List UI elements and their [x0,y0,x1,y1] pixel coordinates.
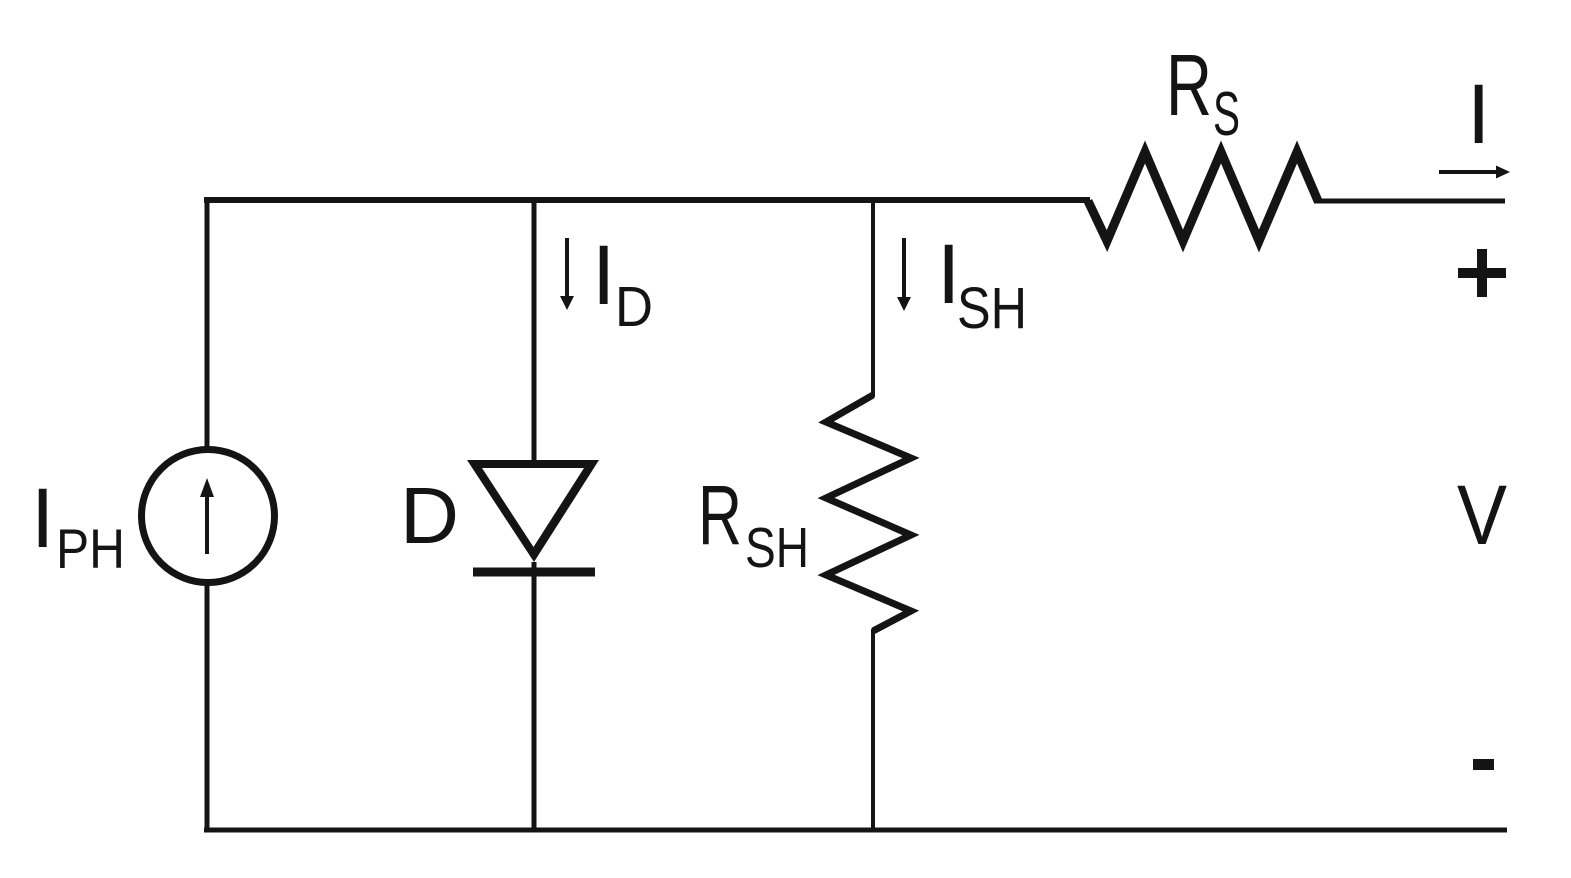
svg-text:I: I [1467,67,1490,161]
svg-text:PH: PH [56,517,125,580]
minus terminal [1473,759,1494,770]
wire: diode branch upper [532,197,537,462]
svg-text:V: V [1457,468,1507,562]
current arrow ID [565,238,569,300]
wire: diode branch lower [532,562,537,832]
diode D cathode bar [473,568,595,577]
svg-text:S: S [1213,80,1240,149]
svg-text:I: I [31,471,54,565]
wire: top right segment after Rs [1314,199,1505,204]
resistor RS zigzag [1088,152,1318,241]
svg-text:D: D [615,275,653,339]
current arrow ISH [902,238,906,301]
svg-text:I: I [592,228,615,322]
svg-text:R: R [698,468,742,562]
current source IPH circle [142,450,275,583]
current source arrow (up) [205,492,209,554]
plus terminal [1458,268,1506,278]
wire: left branch upper [205,197,210,450]
wire: left branch lower [205,583,210,832]
wire: bottom bus [204,828,1507,833]
output current arrow [1439,170,1498,174]
svg-text:R: R [1166,37,1212,134]
diode D triangle [467,460,599,562]
svg-text:SH: SH [957,276,1027,341]
svg-text:SH: SH [745,516,809,580]
wire: top bus from left corner to Rs [204,197,1090,203]
wire: shunt branch lower [871,629,875,832]
svg-text:D: D [400,471,459,560]
resistor RSH zigzag [826,395,911,631]
wire: shunt branch upper [871,197,875,397]
